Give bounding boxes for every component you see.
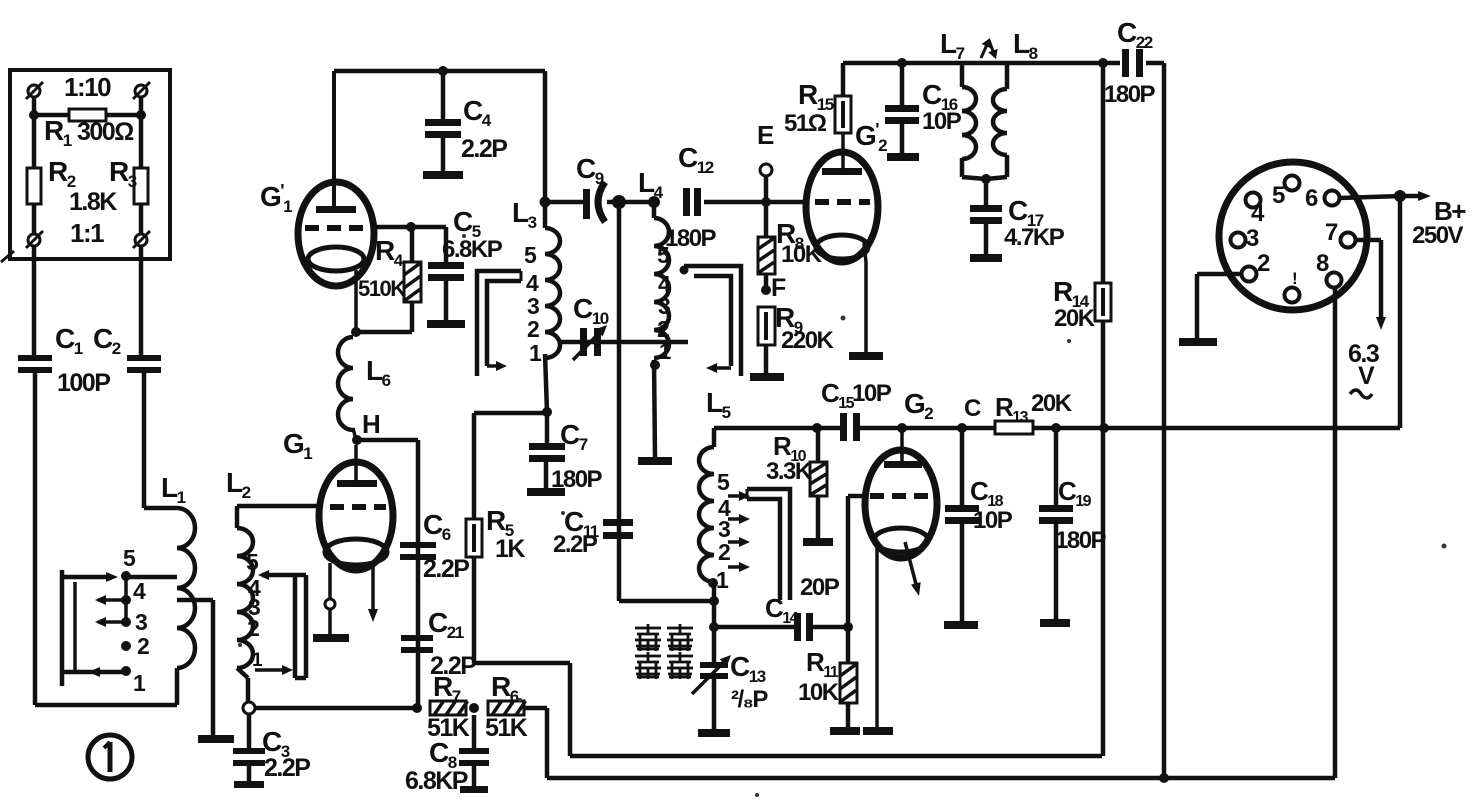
- svg-text:V: V: [1358, 362, 1375, 390]
- svg-text:2: 2: [527, 316, 539, 342]
- svg-text:10K: 10K: [798, 679, 840, 706]
- svg-text:3.3K: 3.3K: [766, 458, 813, 485]
- svg-text:10P: 10P: [973, 507, 1013, 534]
- svg-text:180P: 180P: [551, 466, 603, 493]
- svg-text:C: C: [964, 395, 981, 422]
- svg-text:C22: C22: [1117, 17, 1153, 52]
- svg-text:2.2P: 2.2P: [461, 135, 507, 163]
- svg-text:L7: L7: [940, 28, 965, 63]
- svg-text:G'2: G'2: [855, 120, 887, 155]
- svg-text:1:10: 1:10: [64, 72, 111, 102]
- svg-text:51K: 51K: [485, 714, 528, 742]
- svg-text:²/₈P: ²/₈P: [731, 686, 768, 713]
- svg-text:L4: L4: [638, 167, 664, 202]
- svg-text:C7: C7: [560, 419, 588, 454]
- svg-text:F: F: [771, 274, 786, 302]
- svg-text:C1: C1: [55, 323, 83, 358]
- svg-text:2: 2: [137, 633, 149, 659]
- svg-text:100P: 100P: [57, 369, 110, 397]
- svg-text:R3: R3: [109, 156, 137, 191]
- svg-text:C19: C19: [1058, 476, 1092, 510]
- svg-text:C4: C4: [463, 95, 492, 130]
- svg-text:5: 5: [524, 242, 537, 268]
- svg-text:C18: C18: [970, 476, 1004, 510]
- svg-text:180P: 180P: [665, 225, 717, 252]
- svg-text:C15: C15: [821, 378, 855, 412]
- svg-text:1: 1: [529, 340, 542, 366]
- svg-text:1.8K: 1.8K: [69, 188, 117, 216]
- svg-text:300Ω: 300Ω: [77, 118, 134, 146]
- svg-text:51Ω: 51Ω: [784, 110, 827, 137]
- svg-text:4: 4: [1251, 200, 1265, 227]
- svg-text:5: 5: [123, 545, 136, 571]
- svg-text:L2: L2: [226, 467, 251, 502]
- svg-text:6.8KP: 6.8KP: [405, 767, 468, 795]
- svg-text:R13: R13: [995, 392, 1029, 426]
- svg-text:4.7KP: 4.7KP: [1004, 224, 1065, 251]
- svg-text:2: 2: [247, 615, 259, 641]
- svg-text:220K: 220K: [781, 327, 835, 354]
- svg-text:L8: L8: [1013, 28, 1038, 63]
- svg-text:1K: 1K: [495, 535, 525, 563]
- svg-text:20P: 20P: [800, 574, 840, 601]
- svg-text:8: 8: [1316, 250, 1329, 277]
- svg-text:C2: C2: [93, 323, 121, 358]
- svg-text:2.2P: 2.2P: [423, 555, 469, 583]
- svg-text:L5: L5: [706, 387, 731, 422]
- svg-text:L6: L6: [366, 355, 391, 390]
- svg-text:E: E: [757, 120, 774, 150]
- svg-text:10P: 10P: [852, 380, 892, 407]
- svg-text:3: 3: [135, 609, 147, 635]
- svg-text:H: H: [362, 409, 380, 439]
- svg-text:R15: R15: [798, 79, 834, 114]
- svg-text:10P: 10P: [922, 108, 962, 135]
- svg-text:5: 5: [717, 469, 730, 495]
- svg-text:20K: 20K: [1031, 390, 1073, 417]
- svg-text:20K: 20K: [1054, 305, 1096, 332]
- svg-text:1:1: 1:1: [70, 218, 104, 248]
- svg-text:180P: 180P: [1055, 527, 1107, 554]
- svg-text:4: 4: [133, 578, 146, 604]
- svg-text:2.2P: 2.2P: [264, 754, 310, 782]
- svg-text:C6: C6: [423, 509, 451, 544]
- svg-text:C14: C14: [765, 593, 799, 627]
- svg-text:R2: R2: [48, 156, 76, 191]
- svg-text:1: 1: [252, 650, 263, 671]
- svg-text:180P: 180P: [1104, 81, 1156, 108]
- svg-text:6.8KP: 6.8KP: [442, 236, 503, 263]
- svg-text:C10: C10: [573, 293, 609, 328]
- svg-text:C9: C9: [576, 153, 604, 188]
- svg-text:C13: C13: [730, 651, 766, 686]
- svg-text:L1: L1: [161, 472, 186, 507]
- svg-text:5: 5: [246, 549, 259, 575]
- svg-text:G'1: G'1: [260, 181, 292, 216]
- svg-text:R4: R4: [375, 235, 404, 270]
- svg-text:G2: G2: [904, 388, 933, 423]
- svg-text:1: 1: [716, 567, 729, 593]
- svg-text:250V: 250V: [1412, 222, 1464, 249]
- svg-text:C12: C12: [678, 142, 714, 177]
- svg-text:2: 2: [1257, 250, 1270, 277]
- svg-text:5: 5: [1272, 182, 1285, 209]
- svg-text:7: 7: [1325, 219, 1338, 246]
- svg-text:C21: C21: [428, 607, 464, 642]
- svg-text:3: 3: [1246, 225, 1259, 252]
- svg-text:1: 1: [659, 339, 671, 364]
- svg-text:R11: R11: [806, 647, 839, 681]
- svg-text:G1: G1: [283, 428, 312, 463]
- svg-text:6: 6: [1305, 185, 1318, 212]
- svg-text:510K: 510K: [358, 276, 406, 301]
- svg-text:!: !: [1292, 269, 1297, 288]
- svg-text:R6: R6: [491, 671, 519, 706]
- svg-text:1: 1: [133, 670, 146, 696]
- svg-text:2.2P: 2.2P: [553, 531, 598, 558]
- svg-text:L3: L3: [512, 197, 537, 232]
